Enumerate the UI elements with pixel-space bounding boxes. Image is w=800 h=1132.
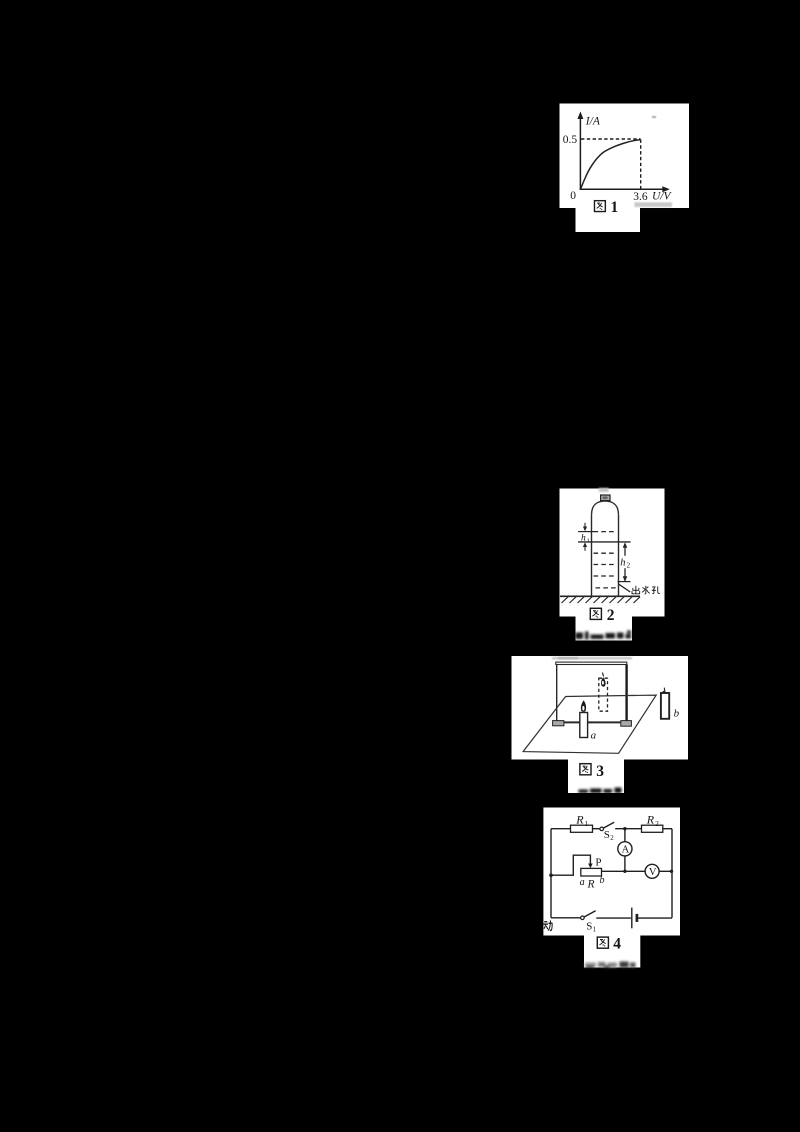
water dash levels — [594, 552, 617, 554]
figure 4 white panel — [543, 808, 680, 936]
svg-text:a: a — [591, 730, 597, 742]
caption 图1 — [594, 201, 605, 212]
svg-text:1: 1 — [611, 199, 619, 216]
h2 dimension line — [624, 544, 626, 581]
svg-text:0.5: 0.5 — [563, 134, 578, 146]
right rod — [625, 665, 627, 721]
blurred marks in caption strip — [576, 631, 632, 640]
svg-text:3: 3 — [596, 763, 604, 780]
candle a flame — [581, 700, 586, 712]
dashed line x=3.6 — [640, 140, 642, 190]
junction node middle — [623, 870, 626, 873]
right rail wire — [671, 829, 673, 918]
dashed candle image — [599, 678, 608, 711]
slider wire with step — [551, 855, 590, 875]
figure 1 white panel — [560, 104, 690, 209]
svg-text:0: 0 — [570, 190, 576, 202]
ammeter branch wire — [624, 829, 626, 872]
svg-text:1: 1 — [585, 819, 589, 828]
svg-text:R: R — [646, 813, 655, 827]
label 出水孔 — [632, 586, 640, 594]
figure 2 white panel — [560, 489, 665, 617]
junction node top — [623, 827, 626, 830]
bottle cap — [601, 495, 610, 501]
svg-text:4: 4 — [613, 935, 621, 952]
svg-text:1: 1 — [587, 537, 590, 544]
battery short plate — [636, 914, 639, 922]
figure 3 white panel — [512, 656, 689, 760]
svg-text:V: V — [649, 867, 657, 878]
figure 1 caption panel — [576, 208, 641, 232]
resistor R2 — [642, 825, 663, 832]
svg-text:h: h — [581, 533, 586, 543]
svg-text:b: b — [674, 708, 680, 720]
switch S1 — [581, 916, 585, 920]
dashed line y=0.5 — [581, 138, 641, 140]
svg-text:U/V: U/V — [652, 191, 673, 203]
image flame sketch — [602, 673, 603, 677]
ground line — [560, 595, 640, 597]
right clamp — [621, 721, 632, 727]
slider arrowhead P — [588, 864, 593, 869]
gray smudge above cap — [599, 488, 609, 492]
svg-text:b: b — [600, 875, 605, 886]
water dash level 1 — [594, 531, 617, 533]
gray smudge under 3.6 — [635, 202, 673, 207]
figure 2 caption panel — [576, 617, 633, 641]
svg-text:S: S — [604, 829, 610, 841]
svg-text:2: 2 — [627, 562, 631, 570]
rheostat R box — [581, 868, 602, 876]
stray character 动 — [544, 920, 553, 930]
left rail wire — [550, 829, 552, 918]
junction node right — [670, 870, 673, 873]
ground hatching — [562, 597, 641, 603]
svg-text:2: 2 — [610, 834, 614, 842]
svg-text:h: h — [620, 557, 625, 568]
small gray speck — [652, 116, 656, 118]
table top — [523, 695, 656, 753]
frame top bar — [556, 662, 627, 664]
switch S2 — [600, 827, 604, 831]
top wire segments — [551, 828, 672, 830]
junction node left — [549, 873, 553, 877]
svg-text:R: R — [587, 878, 595, 890]
left clamp — [553, 721, 564, 726]
caption 图4 — [597, 937, 608, 948]
svg-text:P: P — [595, 856, 601, 868]
bottle right wall — [618, 515, 620, 596]
svg-text:A: A — [622, 845, 630, 856]
svg-text:1: 1 — [593, 926, 597, 934]
outlet slant line — [619, 584, 630, 592]
figure 4 caption panel — [584, 936, 640, 968]
blurred marks in caption strip — [585, 962, 636, 969]
ammeter A — [618, 842, 632, 856]
caption 图3 — [580, 764, 591, 775]
caption 图2 — [590, 608, 601, 619]
svg-text:3.6: 3.6 — [633, 191, 648, 203]
rail on table — [564, 721, 621, 723]
battery long plate — [631, 908, 633, 929]
bottle left wall — [591, 515, 593, 596]
candle a body — [580, 713, 588, 738]
middle wire — [602, 870, 673, 872]
svg-text:a: a — [580, 877, 585, 888]
left rod — [556, 665, 558, 721]
svg-text:I/A: I/A — [585, 116, 601, 128]
I-U curve — [580, 140, 640, 190]
blurred marks in caption strip — [579, 788, 622, 794]
label h2 — [620, 556, 629, 568]
svg-text:2: 2 — [655, 819, 659, 828]
svg-text:2: 2 — [607, 607, 615, 624]
h1 dimension arrows — [584, 523, 586, 527]
gray streak at top — [552, 657, 632, 660]
y axis I/A — [580, 117, 665, 190]
candle b body — [661, 693, 669, 719]
svg-text:R: R — [575, 813, 584, 827]
figure 3 caption panel — [568, 760, 624, 794]
x axis arrowhead — [662, 186, 670, 192]
h2 bottom reference line — [618, 581, 631, 583]
candle b wick — [663, 688, 666, 692]
h1 top reference line — [578, 531, 593, 533]
water surface solid line — [578, 541, 631, 543]
voltmeter V — [645, 864, 659, 878]
bottom wire middle — [596, 917, 631, 919]
bottom wire left — [551, 917, 580, 919]
bottle dome — [592, 501, 619, 515]
resistor R1 — [571, 825, 593, 832]
y axis arrowhead — [577, 112, 583, 120]
svg-text:S: S — [586, 921, 592, 933]
bottom wire right — [637, 917, 672, 919]
